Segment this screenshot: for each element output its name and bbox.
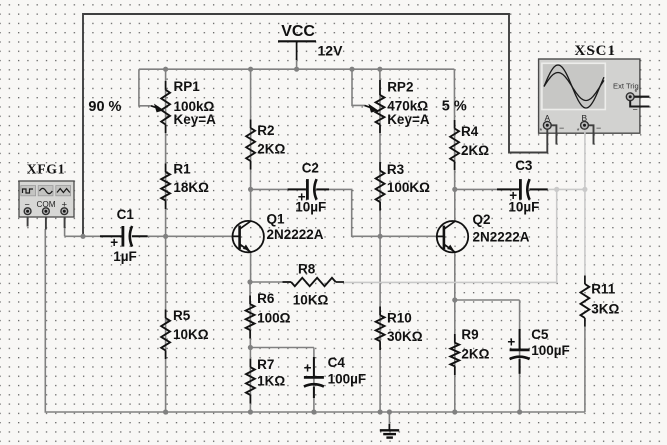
svg-text:VCC: VCC — [281, 23, 315, 40]
svg-text:5 %: 5 % — [442, 98, 467, 114]
svg-text:RP1: RP1 — [174, 79, 201, 94]
svg-text:R8: R8 — [298, 262, 316, 277]
svg-text:R11: R11 — [591, 282, 616, 297]
svg-text:Key=A: Key=A — [387, 112, 430, 127]
svg-text:100µF: 100µF — [328, 371, 367, 386]
svg-text:C3: C3 — [515, 158, 533, 173]
svg-text:R3: R3 — [387, 162, 405, 177]
svg-text:*: * — [540, 128, 543, 135]
svg-text:R7: R7 — [257, 357, 274, 372]
svg-text:2N2222A: 2N2222A — [473, 230, 530, 245]
svg-text:90 %: 90 % — [88, 99, 121, 115]
svg-text:10µF: 10µF — [295, 200, 326, 215]
svg-text:XFG1: XFG1 — [27, 162, 65, 177]
svg-text:12V: 12V — [318, 43, 344, 59]
svg-text:18KΩ: 18KΩ — [173, 180, 209, 195]
svg-text:Q1: Q1 — [267, 212, 286, 227]
svg-text:2N2222A: 2N2222A — [267, 227, 324, 242]
svg-text:XSC1: XSC1 — [575, 43, 617, 59]
svg-text:−: − — [633, 105, 638, 115]
svg-text:1KΩ: 1KΩ — [257, 374, 285, 389]
svg-text:C1: C1 — [117, 207, 135, 222]
svg-text:3KΩ: 3KΩ — [591, 301, 619, 316]
svg-text:10KΩ: 10KΩ — [173, 327, 209, 342]
svg-text:100KΩ: 100KΩ — [387, 180, 430, 195]
svg-text:1µF: 1µF — [113, 249, 137, 264]
svg-text:RP2: RP2 — [387, 80, 413, 95]
svg-text:2KΩ: 2KΩ — [461, 143, 489, 158]
svg-text:R1: R1 — [173, 161, 191, 176]
svg-text:2KΩ: 2KΩ — [257, 141, 285, 156]
svg-text:−: − — [596, 123, 601, 133]
svg-text:R6: R6 — [257, 291, 275, 306]
svg-text:+: + — [110, 235, 118, 250]
svg-text:R4: R4 — [461, 124, 479, 139]
svg-text:*: * — [635, 90, 638, 97]
svg-text:10KΩ: 10KΩ — [293, 293, 329, 308]
svg-text:100Ω: 100Ω — [257, 311, 291, 326]
svg-text:100µF: 100µF — [531, 343, 570, 358]
svg-text:+: + — [304, 361, 312, 376]
svg-text:C2: C2 — [302, 161, 319, 176]
svg-text:+: + — [507, 335, 515, 350]
svg-text:30KΩ: 30KΩ — [387, 329, 423, 344]
svg-text:R10: R10 — [387, 311, 412, 326]
svg-text:2KΩ: 2KΩ — [461, 346, 489, 361]
svg-text:R2: R2 — [257, 123, 274, 138]
svg-text:R5: R5 — [173, 308, 191, 323]
svg-text:C4: C4 — [328, 355, 346, 370]
svg-text:−: − — [559, 123, 564, 133]
svg-text:10µF: 10µF — [508, 200, 539, 215]
svg-text:C5: C5 — [531, 327, 549, 342]
svg-text:Q2: Q2 — [473, 212, 491, 227]
svg-text:R9: R9 — [461, 327, 478, 342]
svg-text:*: * — [577, 128, 580, 135]
svg-text:Key=A: Key=A — [174, 112, 217, 127]
